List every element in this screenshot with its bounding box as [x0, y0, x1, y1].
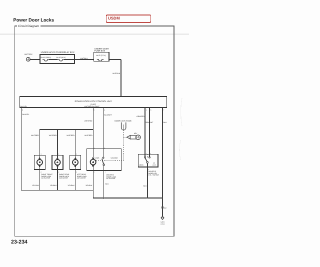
faint scan marks right margin: [180, 98, 183, 160]
actuator 2 box (right rear door lock door lock actuator): [52, 154, 70, 180]
fuse No.42: [56, 56, 66, 61]
svg-text:BLK/YEL: BLK/YEL: [22, 113, 29, 116]
actuator 1 box (right front door lock door lock actuator): [34, 154, 52, 180]
fuse No.52: [96, 54, 106, 61]
battery: [25, 53, 34, 61]
driver's actuator motor: [90, 149, 96, 168]
knob switch ground wire BLK: [104, 166, 110, 198]
actuator 2 ground wire: [50, 167, 58, 190]
svg-text:BLK: BLK: [164, 208, 167, 210]
svg-text:BLU/WHT: BLU/WHT: [104, 113, 112, 116]
under-dash fuse box: [94, 47, 110, 61]
svg-text:(C562): (C562): [160, 224, 165, 226]
svg-text:YEL/BLK: YEL/BLK: [32, 184, 40, 187]
wire GRN/WHT key cylinder UNLOCK: [145, 108, 153, 157]
actuator ground bus: [21, 189, 93, 191]
svg-text:YEL/BLK: YEL/BLK: [68, 184, 76, 187]
revision tag box: [106, 15, 151, 23]
vertical feed wire WHT/BLK: [112, 59, 120, 96]
wire to vertical feed: [109, 58, 121, 60]
wire BLU/WHT knob switch: [103, 108, 112, 158]
svg-text:DOOR LOCK KNOB: DOOR LOCK KNOB: [115, 119, 133, 122]
svg-text:23-234: 23-234: [11, 240, 28, 246]
svg-text:YEL/BLK: YEL/BLK: [50, 184, 58, 187]
svg-text:LOCK: LOCK: [152, 165, 156, 167]
wire GRN/RED key cylinder LOCK: [137, 108, 146, 157]
svg-text:WHT/BLK: WHT/BLK: [112, 72, 120, 75]
driver's actuator label: [106, 173, 117, 180]
svg-text:YEL/BLK: YEL/BLK: [85, 184, 93, 187]
connector C562 on ground wire: [162, 207, 167, 210]
wire battery to under-hood box: [30, 58, 40, 60]
svg-text:POWER DOOR LOCK CONTROL UNIT: POWER DOOR LOCK CONTROL UNIT: [75, 100, 113, 103]
svg-text:UNDER-HOOD FUSE/RELAY BOX: UNDER-HOOD FUSE/RELAY BOX: [41, 51, 75, 54]
right ground bus: [93, 197, 162, 199]
key cylinder switch label: [148, 170, 159, 177]
wire WHT/RED actuator feed: [84, 108, 93, 149]
svg-text:WHT/RED: WHT/RED: [67, 134, 76, 137]
under-hood fuse/relay box: [40, 51, 75, 64]
junction right ground wire: [162, 197, 163, 198]
actuator 1 ground wire: [32, 167, 40, 190]
actuator 3 box (left rear door lock door lock actuator): [70, 154, 88, 180]
driver's door lock actuator box: [87, 147, 122, 173]
key symbol: [127, 132, 141, 140]
svg-text:GRN/RED: GRN/RED: [137, 115, 146, 118]
driver's door key cylinder switch box: [138, 153, 158, 171]
key cylinder switch contacts: [144, 154, 150, 163]
actuator 3 motor: [73, 129, 79, 168]
power door lock control unit: [20, 96, 167, 107]
svg-text:WHT/RED: WHT/RED: [84, 119, 93, 122]
svg-text:GRN/WHT: GRN/WHT: [145, 121, 153, 124]
junction key cylinder ground: [147, 197, 148, 198]
fuse No.41: [41, 56, 52, 61]
scan artifact band: [0, 33, 189, 35]
svg-text:Power Door Locks: Power Door Locks: [13, 17, 54, 22]
mechanical link key to knob (dashed): [124, 136, 127, 138]
wire WHT/BLK to under-dash box: [74, 57, 93, 60]
actuator 1 motor: [37, 129, 43, 168]
junction knob switch ground: [103, 197, 104, 198]
mechanical link knob to switch (dashed): [123, 130, 125, 161]
svg-text:(C437): (C437): [91, 103, 97, 106]
ground symbol G401: [160, 216, 165, 225]
wire BLK control unit right ground: [163, 108, 168, 217]
wire fuse42 to box edge: [64, 58, 74, 60]
svg-text:WHT/RED: WHT/RED: [85, 134, 94, 137]
driver's door lock knob switch: [102, 157, 105, 166]
svg-text:USDM: USDM: [108, 16, 120, 21]
svg-text:Circuit Diagram: Circuit Diagram: [18, 24, 40, 28]
driver's motor ground wire: [85, 167, 93, 198]
door lock knob: [115, 119, 133, 130]
svg-text:UNLOCK: UNLOCK: [111, 156, 119, 159]
actuator 2 motor: [55, 129, 61, 168]
wire BLK/YEL control unit ground (left): [21, 108, 29, 191]
diagram frame with Circuit Diagram label: [15, 26, 174, 236]
svg-text:WHT/RED: WHT/RED: [31, 134, 40, 137]
actuator 3 ground wire: [68, 167, 76, 190]
feed bus to actuators: [40, 128, 93, 130]
wire between fuses: [49, 58, 57, 60]
mechanical link motor to knob switch (dashed): [96, 160, 123, 162]
key cylinder ground wire BLK: [143, 163, 147, 198]
svg-text:BATTERY: BATTERY: [25, 53, 34, 56]
key cylinder UNLOCK label: [152, 162, 156, 166]
svg-text:WHT/RED: WHT/RED: [49, 134, 58, 137]
